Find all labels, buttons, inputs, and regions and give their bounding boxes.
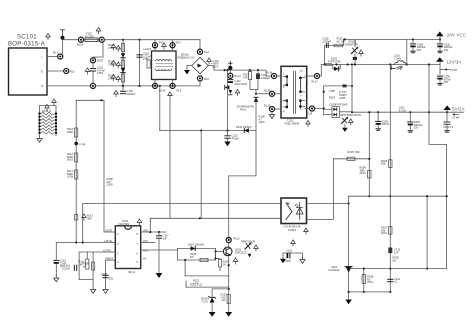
svg-text:1/2W: 1/2W [259, 120, 266, 124]
flag above ladder [52, 99, 57, 105]
LED [295, 203, 303, 220]
svg-text:RL4: RL4 [204, 50, 209, 54]
wire down from R205 to opto lower-right [307, 159, 334, 220]
wire to fuse [63, 39, 79, 41]
GND pin wire + ground [106, 260, 116, 287]
svg-text:2200pF: 2200pF [127, 92, 136, 96]
top wire [76, 99, 104, 101]
flag at C101 [85, 68, 90, 74]
wire up to top rail [62, 40, 64, 54]
pin1 wire [104, 231, 115, 233]
svg-text:VCTRL: VCTRL [103, 248, 112, 252]
svg-text:PRECISION: PRECISION [241, 239, 255, 243]
svg-text:25V: 25V [444, 48, 449, 52]
opto lower wire [150, 217, 281, 219]
svg-text:4.7uH: 4.7uH [399, 108, 406, 112]
svg-text:25V: 25V [414, 126, 419, 130]
svg-text:RL9: RL9 [159, 41, 164, 45]
R117 [75, 170, 78, 179]
svg-text:SC101: SC101 [17, 35, 37, 41]
pin8 VDD wire [141, 231, 166, 233]
svg-text:LF101: LF101 [144, 47, 152, 51]
svg-text:5.1V: 5.1V [203, 299, 209, 303]
svg-text:1uF: 1uF [394, 250, 399, 254]
svg-text:R205: R205 [348, 150, 355, 154]
svg-text:82uF: 82uF [213, 64, 219, 68]
R203 on snubber wire [343, 84, 347, 87]
svg-text:FAN7601: FAN7601 [119, 222, 130, 226]
cap C208 [439, 70, 441, 75]
C113 ground [224, 142, 230, 147]
svg-text:2200pF: 2200pF [323, 39, 332, 43]
node top rail j1 [122, 39, 124, 41]
pin7 wire [141, 242, 155, 244]
mid rail x369 [368, 112, 370, 196]
svg-text:C3 ##: C3 ## [452, 116, 459, 120]
svg-text:MFR PRECISION: MFR PRECISION [340, 113, 361, 117]
pin3 circle [269, 106, 274, 111]
svg-text:220uF: 220uF [382, 122, 390, 126]
rail continues through Q102 [228, 243, 230, 247]
R204 on mid rail [368, 170, 371, 178]
dual diode box [332, 107, 340, 118]
snubber above D201 [323, 37, 346, 65]
svg-text:CS: CS [143, 256, 147, 260]
sense wire 1 [184, 260, 186, 276]
R115 [75, 128, 78, 137]
svg-text:275V: 275V [143, 57, 149, 61]
R118 [218, 259, 221, 267]
C115 branch [55, 243, 57, 260]
svg-text:RL7: RL7 [176, 41, 181, 45]
svg-text:RL17: RL17 [312, 80, 319, 84]
junction C113 [226, 129, 228, 131]
svg-text:2K10: 2K10 [381, 231, 388, 235]
node RL02 [64, 68, 69, 73]
svg-text:2200pF: 2200pF [261, 76, 270, 80]
ladder ground [37, 136, 42, 142]
R109 loop [79, 252, 115, 280]
C3 right stub [452, 113, 455, 115]
svg-text:E: E [41, 70, 43, 74]
svg-text:FB/OT: FB/OT [106, 256, 114, 260]
svg-text:C10B: C10B [339, 96, 346, 100]
rail from 12V to bottom [389, 65, 391, 292]
svg-text:270K: 270K [108, 76, 114, 80]
node RL06 [78, 37, 83, 42]
R116 [75, 153, 78, 162]
wire into bridge [199, 40, 201, 49]
riser to 12V rail [320, 65, 322, 77]
R123 on rail [227, 295, 230, 304]
svg-text:D3SBA60-LGC: D3SBA60-LGC [177, 55, 195, 59]
discharge chain R102/D101/R103/D102/R104 at x=123 [108, 40, 125, 86]
svg-text:0.1: 0.1 [394, 280, 398, 284]
cap C109 under bottom rail [114, 87, 136, 97]
flag above fuse [96, 27, 101, 33]
D201 rectifier loop [326, 57, 341, 71]
svg-text:1K: 1K [223, 262, 226, 266]
svg-text:RL14: RL14 [266, 71, 273, 75]
line filter LF101 box [152, 51, 177, 80]
vertical to opto run [200, 131, 202, 219]
secondary winding [299, 77, 305, 93]
core line [293, 71, 295, 113]
C116 [74, 265, 76, 270]
junction [61, 36, 65, 40]
wire filter return drop [159, 86, 161, 131]
C210 dark rect on rail [388, 248, 392, 254]
svg-text:GB_H: GB_H [128, 270, 135, 274]
Q102 transistor [223, 247, 232, 256]
node RL03 [90, 83, 95, 88]
left startup rail [75, 100, 77, 242]
svg-text:RL8: RL8 [177, 89, 182, 93]
sense wire 2 [186, 286, 229, 288]
svg-text:F-Hg: F-Hg [80, 142, 86, 146]
5V wire [352, 111, 464, 113]
svg-text:25V: 25V [417, 48, 422, 52]
flags under C112 [229, 90, 233, 94]
ground under cluster [342, 128, 348, 132]
flag near rail [82, 214, 87, 220]
diode box links [324, 108, 332, 110]
wire pin E [47, 70, 64, 72]
link circle RL12 [226, 237, 231, 242]
svg-text:RL12: RL12 [234, 237, 241, 241]
svg-text:C212: C212 [286, 249, 293, 253]
plus node blob [228, 66, 232, 70]
antenna mark [61, 30, 65, 37]
primary winding bottom [283, 100, 288, 108]
pin10 circle [314, 73, 319, 78]
svg-text:KSP2222: KSP2222 [235, 250, 247, 254]
svg-text:FYPF1045: FYPF1045 [335, 103, 348, 107]
R205 horizontal wire [333, 158, 369, 160]
junction [224, 69, 226, 71]
opto upper wire [83, 203, 281, 242]
svg-text:560K: 560K [67, 130, 73, 134]
vdd riser [149, 218, 151, 232]
svg-text:RL1: RL1 [53, 51, 58, 55]
link rail x427 [426, 196, 428, 268]
svg-text:RL5: RL5 [204, 77, 209, 81]
svg-text:1uF: 1uF [163, 236, 168, 240]
svg-text:25V: 25V [444, 80, 449, 84]
svg-text:PC824: PC824 [288, 228, 296, 232]
R112 under vfb [86, 259, 89, 269]
pin5 circle [309, 106, 314, 111]
wire pin N to rail [47, 85, 90, 87]
ladder resistor chain R131-R138 [38, 109, 57, 136]
svg-text:2K10: 2K10 [367, 280, 374, 284]
snubber diode D103 up [254, 97, 258, 102]
pin2 circle [269, 91, 274, 96]
svg-text:470pF: 470pF [232, 136, 240, 140]
wire pin2 to snubber [256, 93, 269, 95]
ground under R109 [92, 280, 94, 287]
OUT pin network D106/R120 [141, 249, 178, 251]
connector SC101 box [9, 48, 48, 95]
bridge BD101 diamond [177, 53, 213, 74]
svg-text:NC: NC [190, 255, 194, 259]
svg-text:270K: 270K [108, 62, 114, 66]
ground flag under pin3 [271, 112, 273, 115]
cap C211 on rail [388, 279, 393, 281]
svg-text:RL06: RL06 [77, 43, 84, 47]
svg-text:RL13: RL13 [235, 74, 242, 78]
fuse F101 [85, 38, 98, 42]
source slash [342, 117, 348, 123]
riser from 12V rail area [351, 65, 353, 113]
diode D104 [244, 128, 249, 132]
top rail wire [105, 39, 201, 41]
node [159, 85, 161, 87]
wire y196 corner into opto node [348, 196, 350, 203]
ladder top wire [40, 106, 57, 113]
node on bottom rail [122, 85, 124, 87]
phototransistor [286, 203, 292, 220]
R206 on rail [389, 160, 392, 168]
24V VCC flag [439, 37, 441, 40]
svg-text:RL2: RL2 [70, 70, 75, 74]
svg-text:D110 1N4148: D110 1N4148 [188, 243, 204, 247]
svg-text:47K: 47K [243, 75, 248, 79]
slash + flags near Q102 [245, 243, 251, 249]
snubber R106/C111 parallel [249, 69, 251, 71]
svg-text:0.1: 0.1 [450, 125, 454, 129]
svg-text:3K10: 3K10 [67, 158, 74, 162]
R207 on rail [389, 227, 392, 235]
opto right pins [307, 203, 349, 266]
svg-text:3.3uH: 3.3uH [394, 56, 401, 60]
node RL07 [90, 58, 95, 63]
cap C207 [446, 112, 448, 121]
svg-text:4A 250V: 4A 250V [85, 35, 95, 39]
diode at C112 bottom [225, 85, 230, 89]
TL431 cathode down + ground [348, 273, 350, 299]
riser 24V wire to rail [406, 39, 408, 64]
node top rail j2 [138, 39, 140, 41]
flag at SC101 [46, 33, 51, 39]
B+ wire [208, 66, 271, 76]
bridge bottom pin RL5 [197, 76, 202, 81]
C3 stub [439, 65, 441, 70]
R208 branch [363, 269, 365, 292]
svg-text:5V/2A: 5V/2A [452, 106, 464, 111]
svg-text:RL15: RL15 [264, 89, 271, 93]
secondary winding lower [299, 100, 305, 108]
bridge minus to ground [187, 65, 192, 67]
cap C112 [228, 80, 233, 83]
svg-text:N: N [41, 84, 43, 88]
node RL4 [197, 49, 202, 54]
wire y196 run [349, 195, 447, 197]
cap C110 across line [137, 40, 152, 86]
12V rail riser junction [389, 63, 391, 65]
capacitor C101 [90, 69, 95, 71]
svg-text:1W: 1W [222, 298, 226, 302]
svg-text:FYPF1045: FYPF1045 [328, 59, 341, 63]
svg-text:270K: 270K [108, 46, 114, 50]
svg-text:1/2W: 1/2W [67, 175, 74, 179]
bulk cap chain [229, 70, 231, 73]
svg-text:103: 103 [109, 277, 114, 281]
rail mid junction [389, 195, 391, 197]
cap C204 [409, 111, 411, 113]
svg-text:RL07: RL07 [97, 59, 104, 63]
net blob [74, 142, 78, 146]
svg-text:12V/3A: 12V/3A [447, 60, 462, 65]
svg-text:2K10: 2K10 [360, 171, 367, 175]
wire ref y268.6 [349, 268, 447, 270]
cap C113 [227, 131, 229, 135]
svg-text:24V VCC: 24V VCC [447, 32, 466, 37]
svg-text:L10P: L10P [329, 89, 335, 93]
step wire from snubber column down [229, 131, 256, 241]
wire pin L [47, 56, 58, 58]
svg-text:BOP-0315-A: BOP-0315-A [8, 42, 45, 48]
svg-text:RL16: RL16 [264, 104, 271, 108]
LF101 windings [156, 60, 174, 71]
primary winding top [283, 76, 288, 87]
svg-text:0.22uF: 0.22uF [62, 266, 70, 270]
node RL13 [228, 73, 233, 78]
wire D104 run [160, 130, 256, 132]
branch from fuse down to X-cap [93, 42, 103, 58]
svg-text:D104 1N4937: D104 1N4937 [236, 125, 253, 129]
svg-text:RΧzz: RΧzz [240, 108, 247, 112]
svg-text:C118: C118 [101, 272, 108, 276]
svg-text:0.22: 0.22 [197, 283, 203, 287]
caps on 24V wire [412, 38, 414, 40]
flag [207, 58, 212, 64]
bottom wire [349, 291, 391, 293]
svg-text:R131..8: R131..8 [42, 109, 52, 113]
wire into rectifier cluster [315, 108, 324, 110]
svg-text:VARISTOR: VARISTOR [345, 42, 358, 46]
24V wire [344, 38, 441, 40]
svg-text:FEEL-38006: FEEL-38006 [285, 122, 300, 126]
svg-text:275V: 275V [97, 71, 103, 75]
zener block [212, 289, 229, 297]
transformer box [281, 66, 307, 118]
svg-text:NC: NC [393, 258, 397, 262]
svg-text:56K: 56K [355, 150, 360, 154]
5V flag [446, 111, 448, 113]
join bar [250, 89, 258, 91]
svg-text:R122: R122 [190, 283, 197, 287]
vfb wire [56, 242, 115, 244]
VSTR rail [103, 100, 105, 232]
svg-text:1/2W: 1/2W [107, 183, 114, 187]
12V rail wire [321, 64, 440, 66]
node RL05 [99, 37, 104, 42]
snubber loop [324, 85, 352, 87]
inductor L201 on rail [390, 54, 406, 70]
rail crossing dot [428, 111, 430, 113]
pin1 circle [271, 73, 276, 78]
TL431 symbol [345, 266, 352, 268]
chassis grounds [209, 312, 216, 317]
zener ZD101 [201, 296, 216, 303]
12V/3A flag [436, 57, 444, 62]
svg-text:3B3: 3B3 [87, 216, 92, 220]
bottom rail wire [96, 85, 200, 87]
svg-text:KA431AZ: KA431AZ [329, 268, 341, 272]
node RL01 [58, 54, 63, 59]
junction x201 [200, 129, 202, 131]
B+ to snubber vertical [227, 70, 229, 130]
flag under filter + long sense vertical [168, 92, 173, 98]
svg-text:1M: 1M [79, 262, 83, 266]
svg-text:400V 82uF: 400V 82uF [235, 82, 248, 86]
svg-text:C3 ##: C3 ## [450, 68, 457, 72]
svg-text:RL18: RL18 [306, 112, 313, 116]
C117 [158, 232, 160, 235]
cap C203 [377, 111, 379, 113]
svg-text:56K: 56K [381, 162, 386, 166]
svg-text:LATCH: LATCH [104, 239, 112, 243]
LF101 pin circles [154, 40, 156, 51]
svg-text:R203: R203 [329, 96, 336, 100]
opto rail resistor [75, 215, 78, 221]
varistor RV201 chain [345, 39, 364, 65]
opto box PC201 [281, 198, 307, 224]
